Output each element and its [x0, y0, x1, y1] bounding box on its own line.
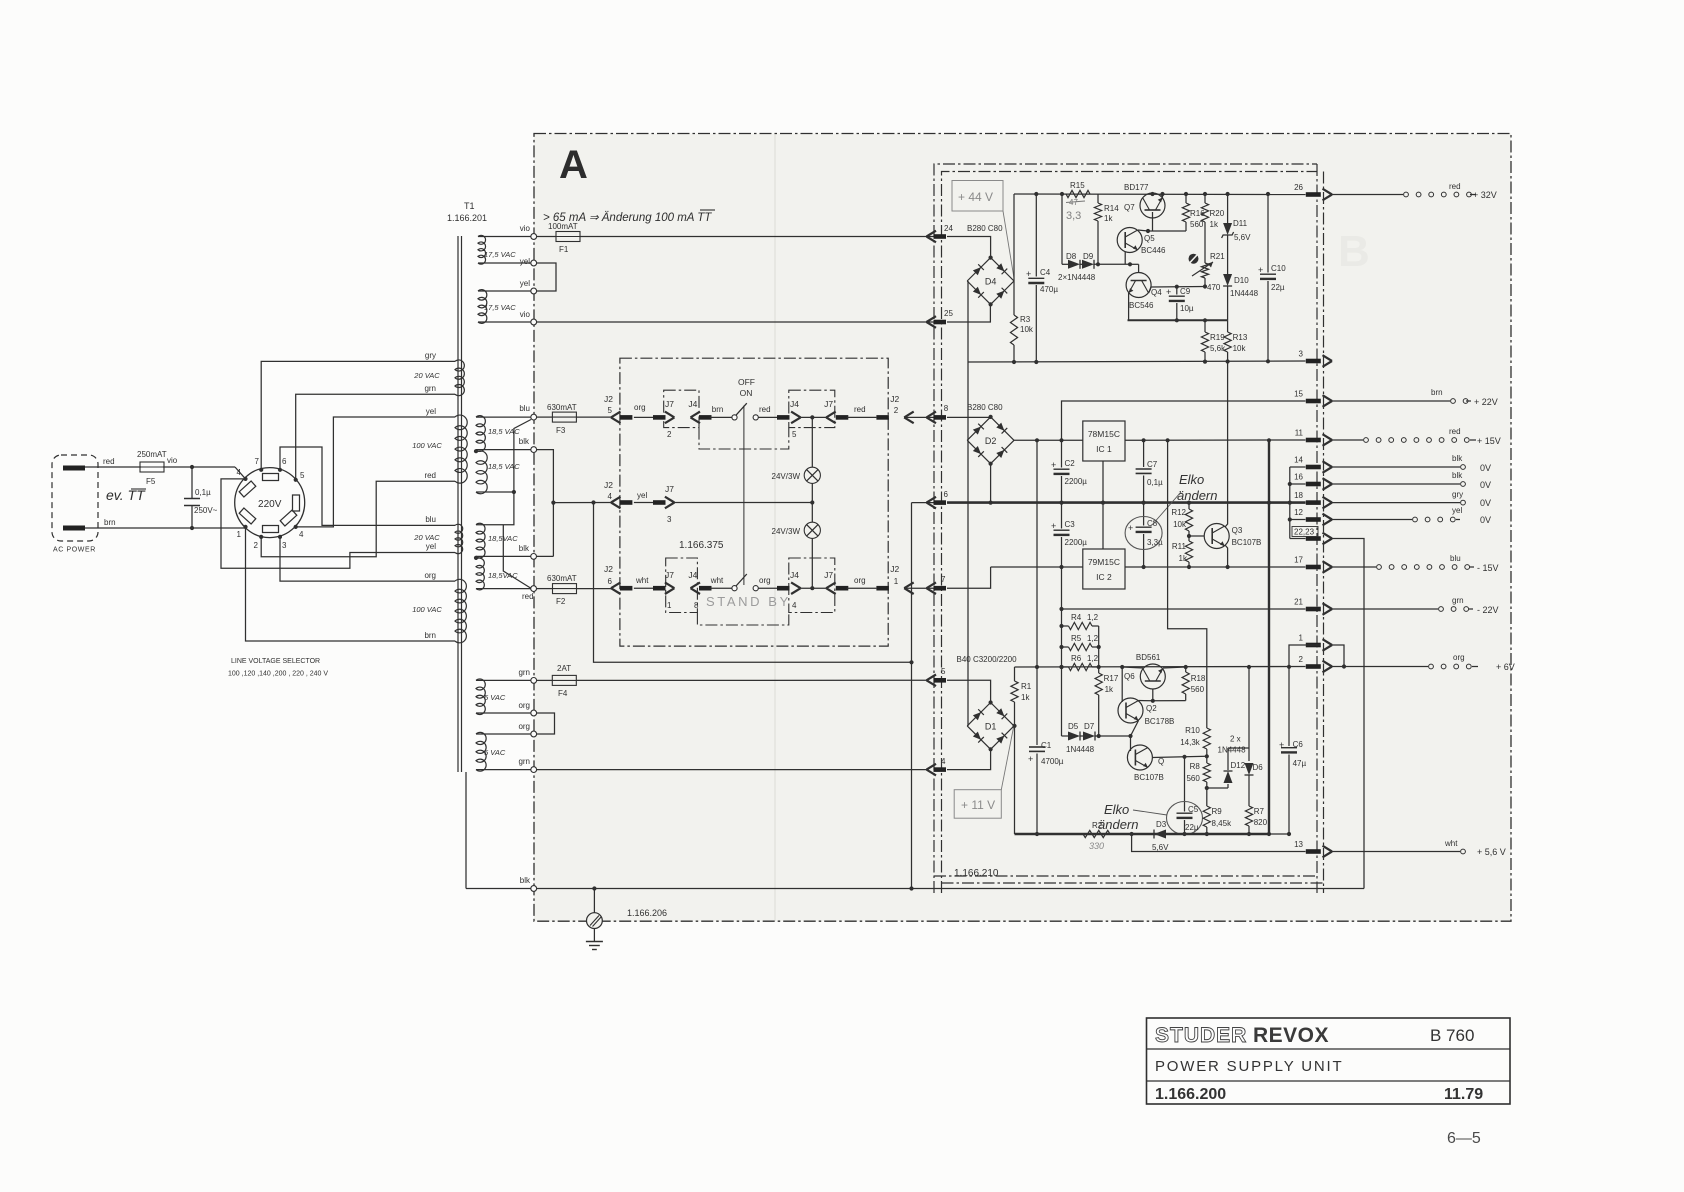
board pin 24 left — [927, 224, 954, 242]
svg-text:D8: D8 — [1066, 252, 1077, 261]
svg-text:J7: J7 — [665, 399, 674, 409]
fuse F3 — [547, 403, 577, 435]
fuse F5 — [137, 450, 178, 486]
wire pin5 to D1 — [947, 680, 991, 702]
wire blk1 tap — [476, 437, 531, 450]
svg-text:8: 8 — [694, 601, 699, 610]
selector pin 4 — [237, 468, 248, 481]
svg-text:13: 13 — [1294, 840, 1303, 849]
svg-text:470µ: 470µ — [1040, 285, 1058, 294]
wire to D12 — [1207, 787, 1228, 789]
wire D2 plus to IC1 — [1014, 438, 1083, 442]
svg-text:red: red — [759, 405, 771, 414]
feedthrough yel lower — [520, 279, 537, 294]
board frame right edge — [1317, 164, 1324, 893]
svg-text:D7: D7 — [1084, 722, 1095, 731]
STAND BY text — [706, 594, 791, 609]
svg-text:BD177: BD177 — [1124, 183, 1149, 192]
transistor Q4 BC546 — [1126, 264, 1162, 320]
svg-text:1k: 1k — [1105, 685, 1114, 694]
fuse F1 — [548, 222, 580, 254]
svg-text:J7: J7 — [665, 484, 674, 494]
svg-text:+: + — [1128, 523, 1133, 533]
handwritten Elko aendern lower — [1098, 802, 1167, 832]
diode D10 — [1223, 274, 1258, 320]
bridge rectifier D2 — [967, 415, 1014, 466]
wire return loop — [594, 503, 934, 889]
svg-text:24V/3W: 24V/3W — [772, 527, 801, 536]
transistor Q3 BC107B — [1189, 362, 1261, 567]
output +32V — [1332, 182, 1497, 200]
svg-text:0V: 0V — [1480, 515, 1491, 525]
svg-text:5 VAC: 5 VAC — [484, 748, 506, 757]
svg-text:Q5: Q5 — [1144, 234, 1155, 243]
svg-text:79M15C: 79M15C — [1088, 557, 1120, 567]
feedthrough red — [531, 586, 537, 592]
svg-text:STAND BY: STAND BY — [706, 594, 791, 609]
svg-text:Elko: Elko — [1179, 472, 1204, 487]
connector J2 pin6 — [604, 564, 632, 594]
resistor R11 — [1172, 536, 1193, 567]
svg-text:100 VAC: 100 VAC — [412, 605, 442, 614]
divider ladder column — [1059, 609, 1063, 736]
frame A dash-dot border — [534, 134, 1511, 922]
title B 760 — [1430, 1026, 1474, 1045]
svg-text:2AT: 2AT — [557, 664, 571, 673]
wire D1 plus down — [1014, 726, 1016, 834]
title 1.166.200 — [1155, 1086, 1226, 1103]
connector J7 pin5 — [824, 399, 848, 423]
wire 22-23 return — [1332, 539, 1364, 889]
resistor R18 — [1182, 667, 1206, 701]
svg-text:26: 26 — [1294, 183, 1303, 192]
svg-text:1N4448: 1N4448 — [1230, 289, 1259, 298]
resistor R2 — [1083, 821, 1110, 851]
svg-text:14,3k: 14,3k — [1180, 738, 1201, 747]
wire IC1 out to pin 11 — [1125, 438, 1306, 442]
svg-text:blk: blk — [519, 437, 530, 446]
svg-text:blk: blk — [519, 544, 530, 553]
wire minus15 row — [991, 565, 1306, 569]
svg-text:4: 4 — [237, 468, 242, 477]
wire feed to lower section — [1168, 440, 1207, 728]
svg-text:1: 1 — [894, 577, 899, 586]
svg-text:0V: 0V — [1480, 463, 1491, 473]
wire minus22 row — [1059, 607, 1305, 611]
svg-text:3: 3 — [1299, 350, 1304, 359]
svg-text:1.166.206: 1.166.206 — [627, 908, 667, 918]
ground symbol 1.166.206 — [586, 889, 667, 950]
svg-text:F5: F5 — [146, 477, 156, 486]
svg-text:blu: blu — [1450, 554, 1461, 563]
output +6V — [1332, 653, 1515, 672]
output 0V gry — [1332, 490, 1491, 508]
board pin 25 left — [927, 309, 954, 328]
connector J7 pin1 — [665, 570, 675, 610]
selector pin 2 — [254, 535, 264, 550]
svg-text:blu: blu — [519, 404, 530, 413]
wire grn tap upper — [476, 668, 531, 680]
svg-text:yel: yel — [426, 407, 436, 416]
svg-text:2 x: 2 x — [1230, 735, 1241, 744]
svg-text:78M15C: 78M15C — [1088, 429, 1120, 439]
wire pin24 to D4 — [947, 237, 991, 258]
wire red pin2 — [261, 481, 455, 557]
svg-text:Q7: Q7 — [1124, 203, 1135, 212]
wire gry pin7 — [261, 361, 455, 469]
selector pin 4 — [294, 525, 304, 539]
svg-text:D5: D5 — [1068, 722, 1079, 731]
link top boxes — [699, 428, 789, 449]
svg-text:org: org — [424, 571, 436, 580]
svg-text:R12: R12 — [1171, 508, 1186, 517]
capacitor C8 elko — [1125, 503, 1163, 567]
svg-text:org: org — [759, 576, 771, 585]
svg-text:J2: J2 — [890, 564, 899, 574]
transistor Q1 BC107B — [1127, 736, 1164, 782]
svg-text:220V: 220V — [258, 499, 282, 510]
svg-text:R21: R21 — [1210, 252, 1225, 261]
handwritten ev. TT — [106, 487, 146, 503]
primary winding 20VAC blu-yel — [413, 515, 462, 554]
secondary winding 5VAC upper — [476, 679, 506, 715]
wire yel link — [478, 263, 556, 291]
wire yel row2 — [634, 491, 666, 505]
rail 0V vertical — [1267, 438, 1271, 836]
selector caption — [228, 658, 328, 678]
svg-text:REVOX: REVOX — [1253, 1024, 1329, 1047]
svg-text:red: red — [103, 457, 115, 466]
switch link bar — [743, 406, 745, 586]
svg-text:A: A — [559, 143, 588, 187]
connector box bottom-left — [666, 558, 698, 613]
board pin 7 left — [927, 575, 947, 594]
svg-text:R15: R15 — [1070, 181, 1085, 190]
svg-text:12: 12 — [1294, 508, 1303, 517]
svg-text:- 15V: - 15V — [1477, 563, 1499, 573]
svg-text:R11: R11 — [1172, 542, 1187, 551]
svg-text:5: 5 — [792, 430, 797, 439]
trimmer R21 — [1192, 252, 1225, 292]
svg-text:18: 18 — [1294, 491, 1303, 500]
wire pin15 branch — [1062, 401, 1306, 440]
board frame outer — [934, 164, 1317, 893]
svg-text:LINE VOLTAGE SELECTOR: LINE VOLTAGE SELECTOR — [231, 658, 320, 665]
node cap junction top — [190, 465, 194, 469]
svg-text:+: + — [1166, 287, 1171, 297]
svg-text:8: 8 — [944, 404, 949, 413]
svg-text:R3: R3 — [1020, 315, 1031, 324]
connector J2 pin2 — [890, 394, 913, 423]
svg-text:vio: vio — [520, 310, 531, 319]
svg-text:5: 5 — [608, 406, 613, 415]
page number 6-5 — [1447, 1130, 1481, 1147]
svg-text:Elko: Elko — [1104, 802, 1129, 817]
svg-text:D1: D1 — [985, 721, 997, 731]
wire org row3 right — [847, 576, 889, 591]
svg-text:11: 11 — [1295, 429, 1304, 438]
title POWER SUPPLY UNIT — [1155, 1058, 1343, 1075]
primary winding 20VAC gry-grn — [413, 351, 464, 396]
svg-text:R9: R9 — [1212, 807, 1223, 816]
section label A — [559, 143, 588, 187]
capacitor C4 — [1026, 194, 1058, 362]
svg-text:ändern: ändern — [1098, 817, 1138, 832]
svg-text:24V/3W: 24V/3W — [772, 472, 801, 481]
svg-text:J4: J4 — [790, 399, 799, 409]
capacitor C3 — [1051, 503, 1087, 609]
board label 1.166.210 — [954, 868, 999, 879]
svg-text:+ 6V: + 6V — [1496, 662, 1515, 672]
wire R15 left leg — [1061, 194, 1063, 264]
wire pin7 link — [947, 567, 991, 588]
rail lower top-section — [968, 359, 1306, 364]
svg-text:gry: gry — [1452, 490, 1463, 499]
label brn — [104, 518, 116, 527]
svg-text:D3: D3 — [1156, 820, 1167, 829]
svg-text:560: 560 — [1186, 774, 1200, 783]
svg-text:blk: blk — [1452, 471, 1463, 480]
rail +11V bottom — [1015, 832, 1292, 836]
wire Q1 out row — [1152, 754, 1209, 759]
secondary winding 5VAC lower — [476, 732, 506, 771]
svg-text:10k: 10k — [1173, 520, 1187, 529]
board pin 17 right — [1294, 556, 1332, 573]
svg-text:1,2: 1,2 — [1087, 654, 1099, 663]
svg-text:D11: D11 — [1233, 219, 1248, 228]
wire grn pin5 — [296, 394, 455, 480]
svg-text:POWER SUPPLY UNIT: POWER SUPPLY UNIT — [1155, 1058, 1343, 1075]
secondary winding 18,5VAC 3 — [476, 523, 518, 558]
wire S4-S5 link — [476, 420, 531, 525]
svg-text:D2: D2 — [985, 436, 997, 446]
svg-text:ON: ON — [740, 388, 753, 398]
wire F3 to J2-5 — [537, 416, 611, 418]
svg-text:Q2: Q2 — [1146, 704, 1157, 713]
board pin 18 right — [1294, 491, 1332, 508]
ghost watermark B — [1338, 227, 1370, 276]
connector J7 pin2 — [665, 399, 675, 439]
svg-text:R14: R14 — [1104, 204, 1119, 213]
svg-text:+ 44 V: + 44 V — [958, 190, 993, 204]
svg-text:1N4448: 1N4448 — [1218, 746, 1247, 755]
svg-text:+ 5,6 V: + 5,6 V — [1477, 847, 1506, 857]
diode D7 — [1083, 722, 1095, 741]
svg-text:blk: blk — [520, 876, 531, 885]
svg-text:5,6V: 5,6V — [1234, 233, 1251, 242]
wire to lamp node — [801, 415, 827, 419]
svg-text:+: + — [1258, 265, 1263, 275]
svg-text:R10: R10 — [1185, 726, 1200, 735]
svg-text:brn: brn — [104, 518, 116, 527]
svg-text:R2: R2 — [1092, 821, 1103, 830]
node loop join — [909, 886, 913, 890]
wire vio tap to F1 — [478, 236, 531, 238]
svg-text:B280 C80: B280 C80 — [967, 403, 1003, 412]
svg-text:2: 2 — [894, 406, 899, 415]
output +22V — [1332, 388, 1498, 407]
connector box J4-J7 top-right — [789, 390, 835, 427]
svg-text:22µ: 22µ — [1271, 283, 1285, 292]
label B280C80 D2 — [967, 403, 1003, 412]
resistor R3 — [1010, 281, 1033, 362]
svg-text:C2: C2 — [1065, 459, 1076, 468]
wire Q5 collector to R16 — [1146, 229, 1186, 233]
feedthrough org upper — [531, 710, 537, 716]
output +15V — [1332, 427, 1501, 446]
selector pin 6 — [278, 457, 287, 472]
svg-text:1: 1 — [667, 601, 672, 610]
wire brn pin1 — [246, 527, 456, 641]
svg-text:10µ: 10µ — [1180, 304, 1194, 313]
connector J4 pin5 — [790, 399, 801, 439]
board pin 14 right — [1294, 456, 1332, 473]
wire org pin3 — [280, 537, 455, 581]
svg-text:brn: brn — [424, 631, 436, 640]
rail 0V — [947, 501, 1306, 505]
svg-text:Q4: Q4 — [1151, 288, 1162, 297]
resistor R5 — [1062, 634, 1101, 651]
diode D5 — [1068, 722, 1080, 741]
wire row3 to pin 7 — [904, 587, 933, 589]
svg-text:3,3: 3,3 — [1066, 210, 1081, 222]
svg-text:F4: F4 — [558, 689, 568, 698]
svg-text:+: + — [1051, 521, 1056, 531]
svg-text:R6: R6 — [1071, 654, 1082, 663]
label B40C3200 — [957, 655, 1018, 664]
rail +44V top — [1014, 192, 1306, 196]
wire plug brn to selector — [85, 527, 246, 529]
transistor Q6 BD561 — [1122, 653, 1186, 701]
svg-text:5,6k: 5,6k — [1210, 344, 1226, 353]
svg-text:17,5 VAC: 17,5 VAC — [484, 250, 516, 259]
connector J2 pin1 — [890, 564, 913, 594]
svg-text:6: 6 — [282, 457, 287, 466]
wire F5 to selector pin 4 — [163, 467, 246, 479]
svg-text:C1: C1 — [1041, 741, 1052, 750]
svg-text:1.166.201: 1.166.201 — [447, 213, 487, 223]
wire wht row3 — [634, 576, 666, 591]
svg-text:blk: blk — [1452, 454, 1463, 463]
wire pin4 to D1 — [947, 750, 991, 770]
svg-text:BC107B: BC107B — [1232, 538, 1262, 547]
wire center tap row — [553, 500, 611, 504]
connector box J7-J4 top-left — [664, 390, 699, 427]
svg-text:20 VAC: 20 VAC — [413, 371, 440, 380]
node blk1 junction — [474, 449, 478, 453]
secondary winding 18,5VAC 4 — [476, 558, 518, 590]
svg-text:470: 470 — [1207, 283, 1221, 292]
svg-text:IC 1: IC 1 — [1096, 444, 1112, 454]
feedthrough blu — [531, 414, 537, 420]
wire D1 minus — [966, 725, 969, 727]
resistor R13 — [1224, 320, 1248, 361]
svg-text:1k: 1k — [1210, 220, 1219, 229]
resistor R9 — [1203, 788, 1232, 834]
schematic sheet tint — [534, 134, 1511, 922]
wire row1 to pin 8 — [904, 416, 933, 418]
resistor R17 — [1095, 673, 1119, 738]
svg-text:1,2: 1,2 — [1087, 634, 1099, 643]
capacitor C9 — [1166, 286, 1194, 320]
svg-text:C10: C10 — [1271, 264, 1286, 273]
wire D4 plus column — [1013, 194, 1015, 281]
secondary winding 18,5VAC 1 — [476, 416, 520, 452]
capacitor C5 elko — [1167, 757, 1203, 835]
svg-text:0V: 0V — [1480, 480, 1491, 490]
svg-text:blu: blu — [425, 515, 436, 524]
svg-text:0,1µ: 0,1µ — [195, 488, 211, 497]
wire D4 minus column — [966, 281, 969, 362]
svg-text:J4: J4 — [790, 570, 799, 580]
wire pin1-2 bracket — [1289, 645, 1344, 667]
feedthrough blk shield — [531, 886, 537, 892]
transistor Q5 BC446 — [1117, 228, 1166, 265]
link bottom boxes — [697, 613, 788, 626]
svg-text:20 VAC: 20 VAC — [413, 533, 440, 542]
transformer T1 label — [447, 201, 487, 223]
power switch lower — [732, 574, 758, 591]
capacitor C10 — [1258, 194, 1286, 361]
svg-text:J2: J2 — [890, 394, 899, 404]
feedthrough grn upper — [531, 678, 537, 684]
svg-text:3: 3 — [667, 515, 672, 524]
feedthrough org lower — [531, 731, 537, 737]
svg-text:R18: R18 — [1191, 674, 1206, 683]
connector J4 pin8 — [688, 570, 711, 610]
regulator IC2 79M15C — [1083, 549, 1125, 589]
svg-text:yel: yel — [520, 257, 530, 266]
feedthrough grn lower — [531, 767, 537, 773]
lamp 24V/3W upper — [772, 467, 821, 483]
svg-text:F1: F1 — [559, 245, 569, 254]
wire yel pin4b — [296, 417, 455, 527]
svg-text:BC178B: BC178B — [1145, 717, 1175, 726]
svg-text:250V~: 250V~ — [194, 506, 218, 515]
svg-text:C5: C5 — [1188, 805, 1199, 814]
svg-text:red: red — [1449, 427, 1461, 436]
output 0V blk2 — [1332, 471, 1491, 490]
node ground tap — [592, 886, 596, 890]
svg-text:STUDER: STUDER — [1155, 1024, 1247, 1047]
selector pin 3 — [278, 535, 287, 550]
svg-text:5: 5 — [941, 667, 946, 676]
standby label — [679, 540, 724, 551]
wire unreg link — [1036, 440, 1038, 667]
svg-text:11.79: 11.79 — [1444, 1086, 1483, 1103]
wire org link — [476, 701, 555, 734]
wire blu tap — [476, 404, 531, 417]
svg-text:R7: R7 — [1254, 807, 1265, 816]
svg-text:100 VAC: 100 VAC — [412, 441, 442, 450]
svg-text:630mAT: 630mAT — [547, 403, 577, 412]
svg-text:AC POWER: AC POWER — [53, 547, 96, 554]
board pin 3 right — [1299, 350, 1332, 367]
resistor R10 — [1180, 726, 1210, 749]
svg-text:C7: C7 — [1147, 460, 1158, 469]
svg-text:org: org — [1453, 653, 1465, 662]
svg-text:BC446: BC446 — [1141, 246, 1166, 255]
svg-text:R19: R19 — [1210, 333, 1225, 342]
label 2x 1N4448 — [1218, 735, 1247, 755]
resistor R19 — [1201, 320, 1226, 361]
resistor R12 — [1171, 503, 1192, 536]
svg-text:ändern: ändern — [1177, 488, 1217, 503]
note box +44V — [952, 181, 1014, 279]
wire org to J4 — [758, 576, 789, 591]
board pin 21 right — [1294, 598, 1332, 615]
svg-text:- 22V: - 22V — [1477, 605, 1499, 615]
